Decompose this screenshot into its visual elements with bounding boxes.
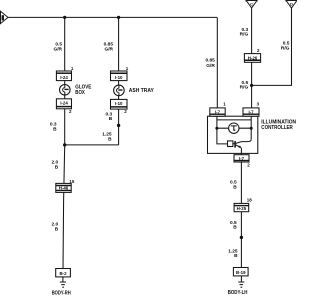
svg-text:B: B (108, 136, 112, 142)
svg-text:G/R: G/R (104, 46, 113, 52)
svg-text:I-24: I-24 (60, 101, 68, 106)
svg-text:I-7: I-7 (239, 156, 245, 161)
svg-text:R/G: R/G (240, 32, 249, 38)
svg-text:I-10: I-10 (115, 101, 123, 106)
svg-text:R/G: R/G (281, 45, 290, 51)
svg-text:B: B (109, 116, 113, 122)
svg-text:B: B (55, 227, 59, 233)
svg-text:D: D (290, 2, 293, 7)
svg-text:H-26: H-26 (248, 55, 258, 60)
svg-text:B: B (53, 126, 57, 132)
svg-text:I-10: I-10 (115, 75, 123, 80)
svg-text:B: B (234, 253, 238, 259)
svg-text:ASH TRAY: ASH TRAY (129, 88, 155, 94)
svg-text:H-46: H-46 (59, 185, 69, 190)
svg-text:B: B (233, 225, 237, 231)
svg-text:BODY-LH: BODY-LH (228, 290, 248, 296)
svg-text:B: B (55, 164, 59, 170)
svg-text:R/G: R/G (240, 84, 249, 90)
svg-text:G/R: G/R (53, 46, 62, 52)
svg-text:18: 18 (247, 198, 253, 203)
svg-text:0.85: 0.85 (205, 57, 215, 63)
svg-text:15: 15 (69, 179, 75, 184)
svg-text:I-7: I-7 (248, 109, 254, 114)
svg-text:H-25: H-25 (237, 206, 247, 211)
svg-text:I-24: I-24 (60, 75, 68, 80)
svg-text:I-7: I-7 (215, 109, 221, 114)
svg-text:B: B (233, 184, 237, 190)
svg-text:B-2: B-2 (59, 271, 67, 276)
svg-text:C: C (250, 2, 253, 7)
svg-text:G/R: G/R (206, 63, 215, 69)
svg-text:CONTROLLER: CONTROLLER (261, 125, 293, 131)
svg-text:BOX: BOX (75, 90, 85, 96)
svg-text:B-19: B-19 (236, 270, 246, 275)
svg-text:BODY-RH: BODY-RH (52, 290, 71, 296)
